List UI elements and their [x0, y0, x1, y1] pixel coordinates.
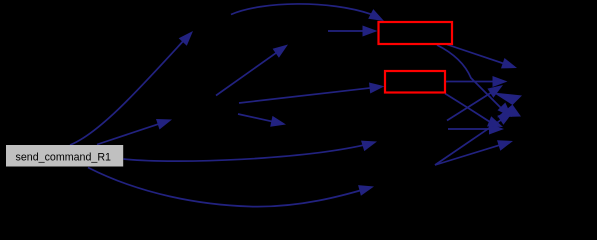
svg-text:send_command_R1: send_command_R1 [16, 151, 112, 163]
